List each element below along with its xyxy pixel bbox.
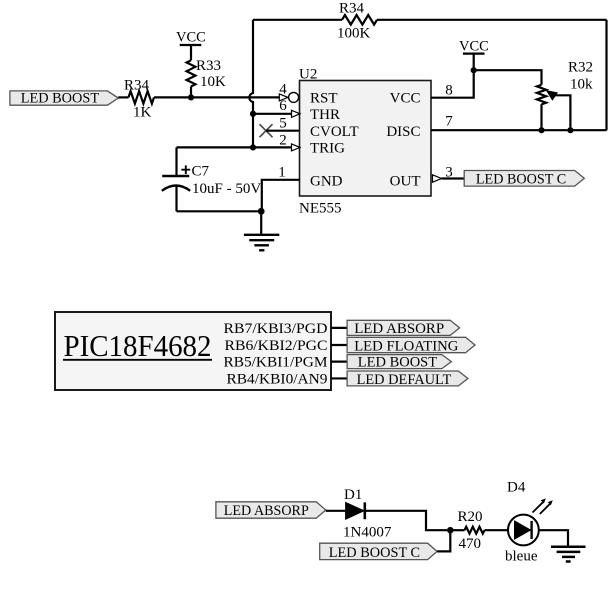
capacitor C7 (162, 147, 262, 211)
flag LED BOOST (10, 91, 118, 107)
resistor R33 10K (187, 58, 226, 90)
svg-text:RB4/KBI0/AN9: RB4/KBI0/AN9 (227, 371, 328, 387)
svg-text:7: 7 (445, 114, 453, 130)
svg-text:RB5/KBI1/PGM: RB5/KBI1/PGM (224, 355, 328, 371)
svg-text:LED ABSORP: LED ABSORP (354, 321, 444, 337)
svg-text:THR: THR (310, 107, 340, 123)
svg-text:D4: D4 (507, 480, 526, 496)
wire: RB6 to flag (331, 344, 347, 346)
node: junction D1/flag/R20 (447, 527, 454, 534)
node: junction vertical / TRIG wire (250, 144, 256, 150)
svg-text:10K: 10K (200, 74, 226, 90)
wire: node to R20 (450, 529, 464, 531)
pin 4 arrow + bubble (279, 82, 298, 103)
pin 3 number (445, 165, 453, 181)
wire: flag to D1 (326, 510, 346, 512)
resistor R34 1K (124, 78, 154, 121)
wire: RB5 to flag (331, 361, 347, 363)
svg-text:GND: GND (310, 174, 343, 190)
svg-text:LED BOOST: LED BOOST (21, 91, 100, 107)
wire: flag to junction (437, 530, 450, 551)
svg-text:C7: C7 (192, 164, 210, 180)
pin 1 number (278, 165, 286, 181)
svg-text:10k: 10k (570, 77, 593, 93)
wire: CVOLT pin 5 (266, 130, 300, 132)
VCC symbol (right) (459, 39, 489, 55)
wire: OUT pin 3 to flag (442, 177, 465, 179)
wire: top horizontal from node at x253 to right edge x606 through R34 100K (253, 19, 607, 21)
svg-text:R34: R34 (124, 78, 150, 94)
ground (LED) (551, 547, 586, 562)
wire: flag to R34 1K (118, 96, 128, 98)
wire: THR pin 6 (253, 113, 292, 115)
svg-text:NE555: NE555 (299, 201, 342, 217)
node: junction vertical / THR wire (250, 111, 256, 117)
wire: TRIG pin 2 from capacitor corner (177, 146, 292, 148)
svg-text:OUT: OUT (390, 174, 421, 190)
wire: cap bottom to ground node (177, 210, 261, 212)
node: wiper junction (567, 127, 573, 133)
svg-text:1: 1 (278, 165, 286, 181)
node: junction R33 / RST wire (188, 94, 194, 100)
flag LED BOOST C (output of 555) (464, 171, 584, 188)
svg-text:VCC: VCC (176, 30, 206, 46)
flag LED FLOATING (RB6) (347, 337, 475, 354)
op-amp U2 NE555 body (299, 67, 431, 217)
wire: RB7 to flag (331, 327, 347, 329)
flag LED BOOST (RB5) (347, 355, 451, 371)
wire: D1 to junction node (365, 511, 451, 530)
svg-text:2: 2 (279, 133, 287, 149)
pin 6 arrow (279, 98, 300, 117)
svg-text:1K: 1K (133, 105, 152, 121)
svg-text:10uF - 50V: 10uF - 50V (192, 181, 261, 197)
wire: LED to ground (539, 530, 568, 547)
svg-text:VCC: VCC (459, 39, 489, 55)
ground (555) (244, 211, 279, 250)
svg-text:VCC: VCC (390, 91, 421, 107)
potentiometer R32 10k (537, 60, 593, 131)
svg-text:DISC: DISC (386, 124, 420, 140)
svg-text:470: 470 (459, 536, 482, 552)
svg-text:U2: U2 (299, 67, 317, 83)
svg-text:LED BOOST: LED BOOST (358, 355, 437, 371)
diode D1 1N4007 (343, 487, 392, 541)
node: ground junction (258, 208, 265, 215)
svg-text:PIC18F4682: PIC18F4682 (64, 328, 212, 363)
svg-text:8: 8 (445, 83, 453, 99)
wire: VCC pin 8 up to VCC node (431, 54, 474, 98)
wire: DISC pin 7 to right edge (431, 129, 607, 131)
flag LED ABSORP (input) (216, 502, 326, 519)
wire: RB4 to flag (331, 377, 347, 379)
svg-text:1N4007: 1N4007 (343, 525, 392, 541)
pin 3 arrow (output) (433, 175, 442, 182)
wire: R20 to LED (485, 529, 508, 531)
wire: VCC node to pot top (474, 70, 542, 85)
wire: right vertical from top wire down to pin7 net (605, 20, 607, 130)
svg-text:RB7/KBI3/PGD: RB7/KBI3/PGD (224, 321, 328, 337)
LED D4 bleue (505, 480, 553, 565)
pin 8 number (445, 83, 453, 99)
node: VCC junction to pot (471, 67, 477, 73)
svg-text:LED ABSORP: LED ABSORP (224, 503, 309, 519)
svg-text:LED BOOST C: LED BOOST C (329, 545, 420, 561)
svg-text:bleue: bleue (505, 549, 538, 565)
flag LED BOOST C (input) (320, 543, 437, 561)
svg-text:R34: R34 (339, 1, 365, 17)
svg-text:LED FLOATING: LED FLOATING (354, 338, 458, 354)
flag LED ABSORP (RB7) (347, 320, 460, 337)
wire: R34 1K to RST pin 4 (154, 96, 279, 98)
wire: left vertical from top wire down with hop over RST wire, to TRIG net (249, 20, 253, 148)
wire: GND pin 1 down to ground node (262, 180, 300, 212)
svg-text:RB6/KBI2/PGC: RB6/KBI2/PGC (225, 338, 328, 354)
svg-text:4: 4 (279, 82, 287, 98)
pin 5 number (279, 116, 287, 132)
VCC symbol (left) (176, 30, 206, 61)
svg-text:5: 5 (279, 116, 287, 132)
wire: R33 down to RST net (190, 87, 192, 98)
svg-text:LED BOOST C: LED BOOST C (476, 171, 566, 187)
svg-text:100K: 100K (337, 26, 371, 42)
node: pot bottom junction (538, 127, 544, 133)
svg-text:R20: R20 (458, 509, 483, 525)
svg-text:RST: RST (310, 91, 338, 107)
flag LED DEFAULT (RB4) (347, 371, 468, 388)
wire: pot bottom to DISC net (540, 104, 542, 130)
PIC18F4682 box (55, 312, 331, 390)
no-connect X on CVOLT pin 5 (260, 124, 273, 137)
pin 2 arrow (279, 133, 300, 151)
svg-text:R32: R32 (568, 60, 593, 76)
svg-text:TRIG: TRIG (310, 141, 345, 157)
svg-text:CVOLT: CVOLT (310, 124, 359, 140)
svg-text:LED DEFAULT: LED DEFAULT (357, 372, 452, 388)
resistor R34 100K (337, 1, 377, 42)
pin 7 number (445, 114, 453, 130)
resistor R20 470 (458, 509, 485, 552)
svg-text:6: 6 (279, 98, 287, 114)
svg-text:R33: R33 (196, 58, 221, 74)
svg-text:D1: D1 (344, 487, 362, 503)
